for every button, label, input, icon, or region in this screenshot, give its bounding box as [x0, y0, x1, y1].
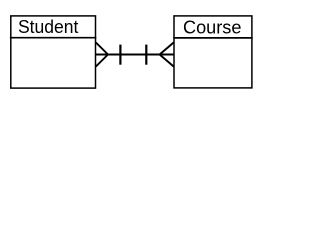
crow's foot at Student (many) — [96, 42, 108, 66]
svg-text:Course: Course — [183, 17, 241, 37]
Student header divider — [10, 37, 96, 39]
relationship line — [96, 54, 175, 56]
entity Course box — [173, 16, 252, 88]
cardinality tick 1 — [119, 45, 121, 65]
svg-text:Student: Student — [18, 17, 78, 37]
Course header divider — [173, 37, 252, 39]
entity Student box — [10, 16, 96, 88]
cardinality tick 2 — [145, 45, 147, 65]
crow's foot at Course (many) — [160, 42, 174, 66]
